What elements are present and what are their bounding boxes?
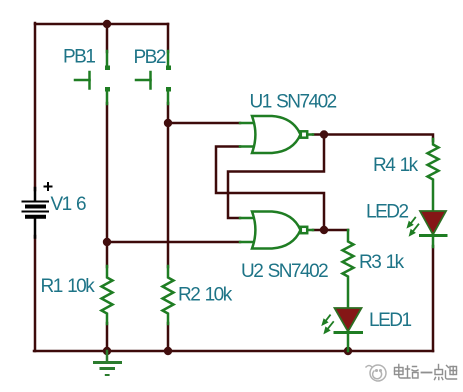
svg-text:LED1: LED1 — [369, 310, 411, 331]
svg-text:PB2: PB2 — [134, 47, 166, 68]
wire feedback U2 out to U1 input B — [216, 147, 324, 231]
wire PB1 top stub — [106, 24, 109, 52]
resistor R1 — [102, 266, 113, 324]
wire PB1 bottom to node R — [106, 103, 109, 243]
op-amp U1 NOR gate body — [240, 116, 313, 153]
svg-text:U1 SN7402: U1 SN7402 — [250, 91, 337, 112]
wire R2 upper lead — [167, 123, 170, 267]
node S (PB2 / R2 / U1 in) — [164, 119, 172, 127]
node ground junction R2 — [164, 347, 172, 355]
ground — [95, 351, 121, 375]
battery V1 pin top — [34, 188, 37, 200]
wire right vertical to LED2 — [432, 246, 435, 351]
wire R1 upper lead — [106, 242, 109, 267]
node Q (U1 output) — [320, 130, 328, 138]
svg-text:R3 1k: R3 1k — [359, 252, 405, 273]
LED2 emission arrows — [407, 218, 418, 236]
resistor R3 — [343, 230, 354, 308]
watermark text dian — [395, 365, 404, 379]
wire PB2 top stub — [167, 24, 170, 52]
battery V1 pin bottom — [34, 219, 37, 238]
svg-text:PB1: PB1 — [63, 47, 95, 68]
wire R2 lower lead — [167, 323, 170, 351]
wire left vertical lower — [34, 236, 37, 351]
watermark text lu — [405, 366, 418, 378]
battery V1 plates — [23, 202, 49, 217]
wire PB2 bottom to node S — [167, 103, 170, 124]
node ground junction LED1 — [344, 347, 352, 355]
svg-text:R1 10k: R1 10k — [41, 276, 96, 297]
svg-text:R2 10k: R2 10k — [178, 285, 233, 306]
LED1 diode — [335, 308, 362, 351]
wire node S to U1 input A — [168, 122, 240, 125]
op-amp U2 NOR gate body — [240, 212, 313, 249]
node Qbar (U2 output) — [320, 226, 328, 234]
watermark logo — [366, 365, 386, 381]
wire R1 lower lead — [106, 323, 109, 351]
wire bottom rail — [34, 350, 433, 353]
wire U1 output to R4 — [313, 135, 433, 142]
wire top rail — [35, 23, 168, 26]
resistor R4 — [428, 139, 439, 212]
svg-text:R4 1k: R4 1k — [373, 155, 419, 176]
wire left vertical upper — [34, 23, 37, 190]
resistor R2 — [163, 266, 174, 324]
LED1 emission arrows — [322, 315, 333, 333]
watermark text tong — [446, 366, 457, 380]
battery plus sign — [45, 183, 52, 190]
svg-text:V1 6: V1 6 — [51, 194, 87, 215]
wire U2 output to R3 — [313, 229, 348, 232]
LED2 diode — [420, 211, 446, 247]
svg-text:LED2: LED2 — [366, 202, 408, 223]
wire node R to U2 input B — [107, 241, 240, 244]
node junction top rail / PB1 — [103, 20, 111, 28]
node ground junction R1 — [103, 347, 111, 355]
watermark text yi — [422, 372, 432, 374]
pushbutton PB2 — [136, 51, 168, 104]
svg-text:U2 SN7402: U2 SN7402 — [241, 261, 328, 282]
node R (PB1 / R1 / U2 in) — [103, 238, 111, 246]
wire feedback U1 out to U2 input A — [228, 135, 324, 219]
watermark text dian2 — [435, 365, 443, 380]
pushbutton PB1 — [75, 51, 107, 104]
